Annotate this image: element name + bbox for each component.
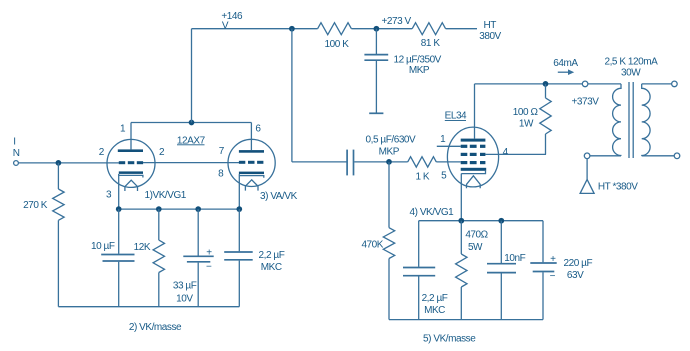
- triode V1a 12AX7 envelope: [107, 139, 155, 187]
- svg-text:2: 2: [99, 147, 105, 158]
- wire V1b cathode down to C 2.2uF: [238, 209, 240, 251]
- wire cathode V1b down: [238, 174, 240, 209]
- node EL34 grid junction: [386, 159, 392, 165]
- svg-text:2) VK/masse: 2) VK/masse: [129, 322, 182, 333]
- wire pin4 G2 to 100R: [485, 153, 546, 155]
- wire C 10uF to ground rail: [118, 262, 120, 307]
- svg-text:+: +: [550, 254, 556, 265]
- node cathode rail junction 4: [236, 206, 242, 212]
- svg-text:100 Ω: 100 Ω: [513, 107, 539, 118]
- triode V1a cathode bar: [119, 171, 143, 174]
- svg-text:380V: 380V: [479, 31, 501, 42]
- wire C 33uF to ground rail: [197, 263, 199, 307]
- wire primary bottom: [590, 155, 621, 157]
- wire EL34 anode to transformer: [475, 83, 583, 85]
- node IN input terminal: [14, 161, 19, 166]
- transformer T1 primary winding: [613, 84, 621, 156]
- svg-text:2,2 µF: 2,2 µF: [422, 293, 448, 304]
- svg-text:2,5 K 120mA: 2,5 K 120mA: [604, 56, 658, 67]
- triode V1b grid dashes: [239, 161, 245, 164]
- resistor 12K: [153, 240, 164, 272]
- wire primary bottom down: [586, 159, 588, 180]
- wire 270K to ground rail: [57, 220, 59, 306]
- wire pin1 stub: [437, 145, 461, 147]
- node plate junction: [543, 81, 549, 87]
- transformer T1 secondary winding: [642, 84, 650, 156]
- wire down to C 220uF: [542, 221, 544, 263]
- svg-text:1: 1: [440, 134, 446, 145]
- svg-text:7: 7: [219, 146, 225, 157]
- triode V1a anode plate bar: [118, 149, 143, 152]
- svg-text:−: −: [206, 261, 212, 272]
- svg-text:5W: 5W: [468, 242, 483, 253]
- svg-text:N: N: [13, 148, 20, 159]
- wire EL34 cathode down: [460, 174, 462, 221]
- resistor 100R 1W: [540, 98, 551, 134]
- triode V1b anode plate bar: [239, 150, 264, 153]
- triode V1a heater filament: [125, 180, 138, 191]
- svg-text:270 K: 270 K: [23, 200, 48, 211]
- svg-text:I: I: [13, 137, 15, 148]
- svg-text:0,5 µF/630V: 0,5 µF/630V: [366, 134, 417, 145]
- capacitor C 220uF/63V: [530, 262, 556, 264]
- svg-text:−: −: [550, 271, 556, 282]
- wire anode rail up: [191, 29, 193, 123]
- svg-text:470Ω: 470Ω: [465, 229, 488, 240]
- svg-text:10V: 10V: [176, 293, 193, 304]
- svg-text:+273 V: +273 V: [382, 16, 412, 27]
- pentode EL34 anode bar: [461, 139, 486, 142]
- wire bottom rail right section: [389, 319, 543, 321]
- wire ground rail left section: [58, 306, 239, 308]
- wire +273 node down to C 12uF: [375, 29, 377, 54]
- svg-text:EL34: EL34: [445, 110, 467, 121]
- svg-text:4) VK/VG1: 4) VK/VG1: [410, 207, 455, 218]
- wire secondary bottom: [642, 155, 675, 157]
- wire to C 10uF: [118, 209, 120, 254]
- wire down to R 470R: [460, 221, 462, 254]
- svg-text:+373V: +373V: [572, 97, 600, 108]
- svg-text:220 µF: 220 µF: [564, 258, 593, 269]
- node cathode rail junction 1: [116, 206, 122, 212]
- svg-text:V: V: [222, 20, 229, 31]
- svg-text:1)VK/VG1: 1)VK/VG1: [144, 190, 186, 201]
- capacitor C 12uF/350V MKP: [364, 54, 388, 56]
- svg-text:81 K: 81 K: [421, 38, 441, 49]
- wire down to C 2,2uF MKC: [418, 221, 420, 267]
- svg-text:10 µF: 10 µF: [91, 241, 115, 252]
- svg-text:MKC: MKC: [261, 262, 282, 273]
- node input junction: [56, 160, 62, 166]
- resistor 470R 5W: [456, 254, 467, 287]
- resistor 470K: [383, 228, 394, 259]
- capacitor C 33uF/10V polarized: [183, 255, 213, 257]
- svg-text:1: 1: [120, 123, 126, 134]
- triode V1b cathode underline: [239, 176, 263, 178]
- svg-text:470K: 470K: [361, 240, 383, 251]
- wire EL34 anode up: [474, 84, 476, 139]
- capacitor C 2,2uF MKC right: [403, 267, 435, 269]
- node cathode rail junction 2: [156, 206, 162, 212]
- svg-text:1W: 1W: [519, 119, 534, 130]
- pentode EL34 cathode hook: [461, 171, 485, 174]
- wire grid node down to 470K: [388, 162, 390, 228]
- wire plate node down to 100R: [545, 84, 547, 98]
- triode V1b 12AX7 envelope: [228, 139, 275, 186]
- wire 470K down to bottom rail: [388, 259, 390, 320]
- pentode EL34 grid2 dashes: [461, 153, 468, 156]
- terminal secondary bottom: [674, 153, 680, 159]
- wire 100R down to pin4 lead: [545, 134, 547, 154]
- wire to coupling cap: [292, 161, 347, 163]
- resistor 1K: [408, 157, 437, 167]
- ground bar: [369, 112, 383, 114]
- svg-text:HT *380V: HT *380V: [598, 182, 638, 193]
- capacitor C 0,5uF/630V MKP coupling: [346, 150, 348, 176]
- wire C 12uF down to ground: [375, 61, 377, 113]
- node +273V junction: [374, 26, 380, 32]
- wire to C 33uF: [197, 209, 199, 256]
- wire 100K to +273 node: [351, 28, 412, 30]
- svg-text:64mA: 64mA: [553, 58, 578, 69]
- wire coupling cap to grid node: [354, 161, 408, 163]
- wire 81K to HT: [446, 28, 477, 30]
- pentode EL34 grid3 dashes: [461, 145, 468, 148]
- wire EL34 cathode rail: [419, 220, 543, 222]
- svg-text:3) VA/VK: 3) VA/VK: [260, 191, 298, 202]
- svg-text:MKP: MKP: [409, 65, 430, 76]
- wire junction down to R 270K: [57, 163, 59, 189]
- svg-text:2: 2: [159, 147, 165, 158]
- svg-text:8: 8: [218, 169, 224, 180]
- wire down to C 10nF: [500, 221, 502, 263]
- pentode EL34 cathode bar: [461, 168, 487, 171]
- svg-text:12 µF/350V: 12 µF/350V: [394, 55, 442, 66]
- pentode EL34 heater filament: [467, 176, 481, 189]
- svg-text:63V: 63V: [567, 270, 584, 281]
- resistor 270K: [53, 189, 64, 220]
- capacitor C 2,2uF MKC left: [224, 251, 253, 253]
- wire primary top to winding: [588, 83, 621, 85]
- terminal primary bottom: [584, 153, 590, 159]
- svg-text:2,2 µF: 2,2 µF: [259, 250, 285, 261]
- wire secondary top: [642, 83, 672, 85]
- wire input to triode1 grid: [19, 162, 120, 164]
- pentode EL34 grid1 dashes: [461, 161, 468, 164]
- svg-text:+: +: [206, 247, 212, 258]
- wire cathode rail V1: [119, 208, 240, 210]
- svg-text:5: 5: [441, 170, 447, 181]
- svg-text:12K: 12K: [134, 242, 151, 253]
- capacitor C 10uF: [101, 254, 134, 256]
- wire anode V1a up: [130, 123, 132, 150]
- svg-text:MKP: MKP: [379, 146, 400, 157]
- svg-text:33 µF: 33 µF: [173, 280, 197, 291]
- wire coupling from top junction down: [291, 29, 293, 162]
- svg-text:1 K: 1 K: [415, 172, 429, 183]
- svg-text:30W: 30W: [621, 68, 641, 79]
- node EL34 cathode junction 1: [458, 218, 464, 224]
- wire anode V1b up: [250, 123, 252, 151]
- wire anode rail V1a-V1b: [131, 122, 251, 124]
- svg-text:6: 6: [255, 123, 261, 134]
- HT connector triangle: [580, 179, 594, 193]
- resistor 81K: [412, 23, 445, 35]
- svg-text:HT: HT: [483, 20, 496, 31]
- wire C 10nF to rail: [500, 273, 502, 319]
- wire cathode V1a down: [118, 174, 120, 209]
- svg-text:100 K: 100 K: [325, 39, 350, 50]
- wire C 220uF to rail: [542, 272, 544, 319]
- wire top rail to 100K: [192, 28, 318, 30]
- node anode rail junction: [189, 120, 195, 126]
- terminal secondary top: [672, 81, 678, 87]
- transformer T1 core: [628, 82, 630, 158]
- capacitor C 10nF: [487, 263, 516, 265]
- wire grid link V1a-V1b: [143, 162, 239, 164]
- wire C 2,2uF MKC to rail: [418, 277, 420, 320]
- triode V1b heater filament: [245, 180, 258, 191]
- node cathode rail junction 3: [195, 206, 201, 212]
- svg-text:MKC: MKC: [424, 305, 445, 316]
- wire 1K to pin5: [436, 161, 460, 163]
- wire R 12K to ground rail: [158, 273, 160, 307]
- pentode EL34 envelope: [447, 127, 498, 187]
- svg-text:4: 4: [503, 147, 509, 158]
- wire C 2,2uF to ground rail: [238, 261, 240, 307]
- wire to R 12K: [158, 209, 160, 240]
- svg-text:5) VK/masse: 5) VK/masse: [423, 334, 476, 345]
- triode V1a cathode underline: [119, 175, 143, 177]
- svg-text:3: 3: [106, 189, 112, 200]
- terminal primary top: [582, 81, 588, 87]
- resistor 100K: [318, 23, 352, 35]
- arrow 64mA: [558, 71, 569, 73]
- node coupling junction top: [289, 26, 295, 32]
- triode V1b cathode bar: [239, 172, 264, 175]
- wire R 470R to rail: [460, 287, 462, 320]
- svg-text:10nF: 10nF: [504, 253, 525, 264]
- triode V1a grid dashes: [119, 161, 125, 164]
- node EL34 cathode junction 2: [498, 218, 504, 224]
